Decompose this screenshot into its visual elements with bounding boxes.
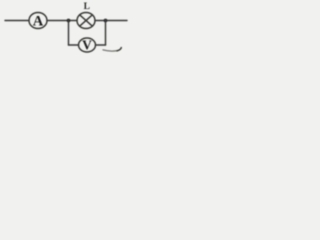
voltmeter V xyxy=(79,38,96,53)
wire xyxy=(95,20,127,22)
wire xyxy=(47,20,77,22)
node left junction xyxy=(67,19,71,23)
svg-text:V: V xyxy=(82,38,92,53)
lamp L xyxy=(77,2,95,29)
node right junction xyxy=(104,19,108,23)
ammeter A xyxy=(29,13,47,30)
wire xyxy=(69,44,79,46)
wire xyxy=(105,21,107,46)
wire xyxy=(96,44,106,46)
svg-text:A: A xyxy=(33,13,44,29)
svg-text:L: L xyxy=(84,2,90,12)
artifact stroke (scan remnant, bottom right) xyxy=(103,48,121,51)
wire xyxy=(68,21,70,46)
wire xyxy=(5,20,29,22)
